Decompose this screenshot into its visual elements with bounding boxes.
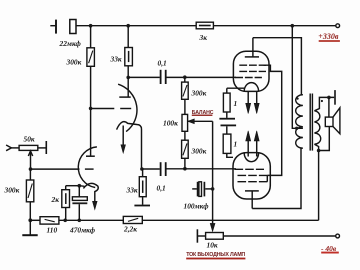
label 2к (51, 195, 60, 204)
label 300к lower-left (4, 186, 20, 195)
svg-text:22мкф: 22мкф (59, 39, 82, 48)
potentiometer 50к (19, 145, 45, 150)
node junction top-A (89, 24, 93, 28)
output tube V2 envelope (233, 51, 269, 91)
speaker (325, 97, 340, 133)
wire anode V2 to transformer top (253, 38, 302, 95)
ground main (22, 220, 37, 235)
node junction top-C (291, 24, 295, 28)
triode V1a cathode (117, 122, 142, 169)
triode V1b grid (dashed) (85, 168, 94, 170)
node grid2 junction (183, 167, 187, 171)
node 470мкф bus (78, 219, 82, 223)
triode V1a grid (dashed) (91, 108, 132, 110)
wire node down to anode of lower triode (90, 108, 92, 156)
svg-text:300к: 300к (66, 57, 82, 66)
transformer primary winding (296, 95, 303, 149)
output tube V2 grids (dashed rows) (235, 65, 266, 77)
node speaker top (327, 96, 331, 100)
wire cathode V1b node (66, 185, 80, 187)
svg-text:470мкф: 470мкф (69, 225, 96, 234)
label 0,1 upper (158, 59, 167, 68)
resistor 110 (40, 217, 59, 224)
triode V1b cathode (79, 183, 98, 202)
resistor 2,2к (123, 216, 142, 223)
wire bias feed vertical (212, 121, 214, 224)
label 22мкф (59, 39, 82, 48)
wire bus 110 to 2,2к (59, 219, 123, 221)
terminal -40в (336, 234, 340, 238)
output tube V2 cathode (227, 83, 259, 94)
svg-text:300к: 300к (191, 88, 207, 97)
svg-text:1: 1 (234, 140, 238, 149)
wire anode V3 to transformer bottom (252, 148, 301, 208)
node anode V1a (126, 76, 130, 80)
terminal bar secondary (334, 90, 336, 105)
input arrow (6, 145, 19, 151)
node junction top-B (126, 24, 130, 28)
ground V2 cathode (219, 112, 235, 119)
svg-text:300к: 300к (4, 186, 20, 195)
capacitor 100мкф (192, 182, 212, 197)
resistor 1 (V3 cathode) (223, 134, 231, 153)
wire bus to 110 (30, 219, 40, 221)
polarity dot primary (297, 98, 299, 100)
node cathode V1a junction (140, 167, 144, 171)
resistor 300к lower-middle (182, 131, 189, 158)
wire top rail left segment (76, 25, 196, 27)
svg-text:+330в: +330в (318, 32, 339, 41)
output tube V3 cathode (244, 153, 258, 162)
potentiometer 100к wiper arrow (188, 119, 213, 124)
wire bias arrow onto 10к (210, 223, 215, 231)
label БАЛАНС (192, 110, 214, 116)
output tube V3 heater arrows (246, 131, 260, 157)
node wiper junction (29, 167, 33, 171)
resistor 1 (V2 cathode) (223, 93, 230, 112)
node 2к bus (63, 219, 67, 223)
triode V1b anode (86, 155, 95, 157)
wire bus right segment (142, 219, 318, 221)
label 1 (V3) (234, 140, 238, 149)
transformer secondary winding (314, 111, 320, 144)
wire 1 ohm to V3 cathode (227, 153, 233, 157)
label 300к lower-middle (191, 146, 207, 155)
wire 33к to anode node (127, 66, 129, 78)
capacitor 0,1 upper (128, 70, 185, 84)
triode V1a envelope (118, 84, 137, 131)
triode V1a cathode arrow (121, 126, 126, 154)
wire grid2 node to output tube V3 grid (185, 168, 236, 170)
resistor 300к lower-left (26, 169, 33, 202)
output tube V3 envelope (233, 153, 270, 199)
terminal bar 50к (45, 141, 47, 154)
resistor 300к upper-left (87, 26, 95, 67)
svg-text:33к: 33к (110, 55, 122, 64)
svg-text:50к: 50к (24, 135, 35, 144)
svg-text:2,2к: 2,2к (123, 225, 137, 234)
node cathode V1b (78, 184, 82, 188)
wire 300к to grid2 node (184, 158, 186, 169)
resistor 33к upper (125, 26, 133, 66)
output tube V3 grids (dashed rows) (235, 169, 268, 181)
svg-text:110: 110 (47, 225, 58, 234)
label 3к (199, 33, 208, 42)
wire grid1 to output tube V2 (185, 76, 236, 78)
resistor 3к (196, 22, 213, 29)
terminal bar 10к (196, 229, 198, 242)
wire secondary top lead (314, 97, 334, 110)
resistor 300к upper-middle (182, 77, 189, 99)
ground V3 cathode (221, 125, 237, 134)
svg-text:1: 1 (234, 99, 238, 108)
label 2,2к (123, 225, 137, 234)
svg-text:ТОК ВЫХОДНЫХ ЛАМП: ТОК ВЫХОДНЫХ ЛАМП (186, 252, 245, 258)
capacitor 470мкф (72, 186, 87, 221)
wire 300к to grid node (90, 66, 92, 108)
wire secondary bottom to speaker (319, 127, 330, 151)
svg-text:0,1: 0,1 (158, 59, 167, 68)
wire feedback to bus (318, 151, 320, 221)
triode V1b envelope (78, 147, 97, 188)
resistor 2к (62, 186, 70, 221)
output tube V2 anode (245, 38, 259, 57)
svg-text:300к: 300к (191, 146, 207, 155)
wire +330в to center tap (292, 26, 303, 129)
wire 300к to bus (29, 202, 31, 221)
capacitor 22мкф (50, 20, 76, 34)
wire top rail right segment (213, 25, 335, 27)
node grid1 junction (183, 75, 187, 79)
label 110 (47, 225, 58, 234)
potentiometer 100к БАЛАНС (182, 99, 188, 131)
label 0,1 lower (157, 183, 166, 192)
label 10к (207, 241, 218, 250)
resistor 33к lower (139, 169, 146, 197)
label 1 (V2) (234, 99, 238, 108)
node 100мкф junction (211, 187, 215, 191)
svg-text:0,1: 0,1 (157, 183, 166, 192)
node secondary bottom (317, 149, 321, 153)
output tube V2 heater arrows (246, 92, 260, 114)
label 100мкф (184, 202, 210, 211)
capacitor 0,1 lower (143, 162, 185, 176)
svg-text:100к: 100к (163, 118, 178, 127)
potentiometer 10к (197, 233, 223, 240)
label 300к upper-middle (191, 88, 207, 97)
polarity dot secondary (321, 100, 323, 102)
potentiometer 50к wiper arrow (28, 151, 32, 169)
label 33к upper (110, 55, 122, 64)
label -40в (321, 244, 339, 254)
node center tap (295, 127, 298, 130)
label ТОК ВЫХОДНЫХ ЛАМП (186, 252, 245, 259)
label 50к (24, 135, 35, 144)
label 300к upper-left (66, 57, 82, 66)
svg-text:10к: 10к (207, 241, 218, 250)
output tube V3 anode (245, 191, 259, 209)
node grid V1a / anode V1b (89, 107, 93, 111)
svg-text:- 40в: - 40в (321, 244, 337, 253)
label 100к (163, 118, 178, 127)
output tube V3 screen tie (266, 175, 268, 181)
label 33к lower (126, 185, 138, 194)
svg-text:100мкф: 100мкф (184, 202, 210, 211)
ground 33к lower (134, 197, 150, 206)
svg-text:33к: 33к (126, 185, 138, 194)
output tube V2 screen tie (264, 65, 282, 175)
triode V1a anode (119, 77, 130, 97)
label 470мкф (69, 225, 96, 234)
terminal +330в (336, 24, 340, 28)
wire secondary bottom lead (314, 144, 318, 150)
triode V1b cathode arrow (93, 201, 98, 209)
wire wiper to grid V1b (31, 168, 80, 170)
wire 10к to -40в terminal (223, 235, 335, 237)
label +330в (318, 32, 340, 42)
transformer core (310, 94, 312, 151)
svg-text:2к: 2к (51, 195, 60, 204)
svg-text:3к: 3к (199, 33, 208, 42)
node ground junction (28, 218, 32, 222)
